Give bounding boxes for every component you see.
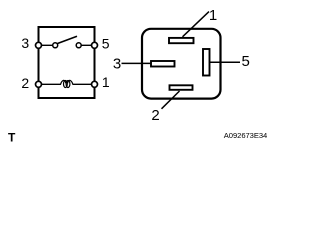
svg-text:1: 1	[209, 7, 217, 24]
svg-text:5: 5	[242, 53, 250, 70]
wire bottom row pin2 to coil	[41, 83, 61, 85]
leader line to 1	[183, 12, 210, 37]
switch contact left	[53, 43, 58, 48]
leader line to 5	[210, 61, 241, 63]
svg-text:3: 3	[21, 35, 29, 51]
svg-text:1: 1	[102, 74, 110, 90]
connector body	[142, 29, 221, 99]
slot pin2 (bottom)	[170, 85, 193, 90]
svg-text:A092673E34: A092673E34	[224, 131, 267, 140]
svg-text:T: T	[8, 131, 16, 145]
slot pin1 (top)	[169, 38, 194, 43]
wire switch to pin5	[81, 44, 92, 46]
coil L1	[61, 80, 73, 87]
slot pin5 (right, vertical)	[203, 49, 210, 76]
terminal pin2	[36, 81, 42, 87]
svg-text:5: 5	[102, 35, 110, 51]
leader line to 3	[122, 62, 152, 64]
leader line to 2	[162, 91, 180, 109]
switch contact right	[76, 43, 81, 48]
slot pin3 (left)	[151, 61, 175, 67]
terminal pin1	[92, 81, 98, 87]
wire coil to pin1	[73, 83, 93, 85]
relay internal circuit box	[39, 27, 95, 98]
switch arm	[58, 36, 78, 43]
terminal pin3	[36, 42, 42, 48]
svg-text:3: 3	[113, 55, 121, 72]
svg-text:2: 2	[151, 107, 159, 124]
wire top row pin3 to switch	[41, 44, 53, 46]
svg-text:2: 2	[21, 75, 29, 91]
terminal pin5	[92, 42, 98, 48]
